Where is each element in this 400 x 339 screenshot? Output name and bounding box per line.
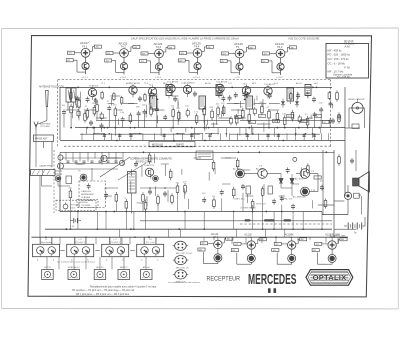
junction — [268, 127, 270, 129]
resistor — [328, 91, 330, 93]
wire — [125, 212, 127, 230]
wire — [235, 117, 246, 119]
wire — [142, 133, 144, 140]
wire — [154, 109, 163, 111]
capacitor — [320, 107, 322, 109]
wire — [191, 133, 193, 140]
svg-text:457: 457 — [141, 61, 144, 63]
wire — [263, 122, 265, 131]
junction — [45, 236, 47, 238]
wire — [252, 128, 254, 136]
junction — [172, 127, 174, 129]
wire — [246, 133, 248, 140]
wire — [303, 133, 305, 140]
transformer T.4 PO + GO — [137, 237, 164, 261]
junction — [65, 228, 67, 230]
svg-text:470: 470 — [235, 117, 238, 119]
junction — [86, 127, 88, 129]
wire — [184, 188, 186, 198]
junction — [231, 87, 233, 89]
wire — [229, 133, 231, 140]
wire — [81, 133, 83, 140]
resistor — [196, 113, 198, 116]
wire — [75, 163, 82, 165]
junction — [275, 236, 277, 238]
junction — [238, 151, 240, 153]
svg-text:CLAVIER: CLAVIER — [81, 196, 91, 199]
wire — [257, 123, 271, 125]
dashed note box (liaisons clavier) — [79, 181, 106, 208]
junction — [110, 251, 112, 253]
wire — [265, 229, 267, 237]
wire — [204, 128, 206, 132]
resistor — [101, 91, 103, 93]
capacitor electrolytic — [100, 114, 103, 118]
resistor — [125, 199, 127, 202]
capacitor — [90, 120, 92, 122]
wire — [251, 205, 253, 212]
junction — [252, 211, 254, 213]
capacitor — [235, 92, 237, 94]
svg-text:4 TOUCHES: 4 TOUCHES — [79, 205, 91, 207]
junction — [109, 250, 111, 252]
svg-text:DETR. GTL: DETR. GTL — [256, 204, 267, 206]
svg-text:4k7: 4k7 — [315, 116, 318, 118]
driver diodes — [279, 179, 283, 184]
resistor — [252, 199, 254, 202]
capacitor — [150, 91, 152, 93]
wire — [73, 257, 75, 270]
transistor group AC128 T.8 bottom — [231, 233, 266, 264]
svg-text:468: 468 — [169, 47, 172, 49]
wire — [221, 111, 223, 118]
junction — [312, 133, 314, 135]
junction — [302, 228, 304, 230]
transistor group AF107 T4.1 (top view + symbol) — [66, 41, 101, 74]
wire — [223, 105, 225, 113]
svg-text:a T6.2: a T6.2 — [277, 77, 284, 79]
junction — [86, 251, 88, 253]
junction — [148, 236, 150, 238]
antenna voiture symbol — [34, 122, 38, 128]
diagonal pointer line — [100, 157, 130, 177]
wire — [153, 133, 155, 140]
junction — [146, 274, 148, 276]
capacitor — [222, 96, 224, 98]
capacitor — [87, 97, 89, 99]
junction — [99, 274, 101, 276]
capacitor — [135, 161, 137, 163]
capacitor — [156, 107, 158, 109]
wire — [95, 237, 97, 244]
capacitor — [351, 158, 353, 160]
transformer T.1 Tous Ondes — [33, 237, 60, 261]
junction — [277, 127, 279, 129]
wire — [231, 237, 233, 244]
svg-text:VOITURE: VOITURE — [40, 126, 50, 128]
junction — [173, 140, 175, 142]
resistor — [70, 104, 72, 107]
svg-text:AF117: AF117 — [296, 82, 303, 85]
svg-text:Remplacements pour modèle a: Remplacements pour modèle avec clavier 4… — [90, 285, 157, 288]
junction — [77, 87, 79, 89]
wire — [58, 257, 60, 270]
resistor — [268, 109, 270, 112]
wire — [177, 101, 179, 108]
svg-text:1k: 1k — [124, 198, 126, 200]
wire — [161, 163, 169, 165]
svg-text:MEL./OSC. PO-GO: MEL./OSC. PO-GO — [176, 253, 193, 255]
svg-text:CADRE FER.: CADRE FER. — [39, 165, 53, 168]
svg-text:T4.1: T4.1 — [82, 44, 88, 48]
wire — [111, 97, 113, 106]
resistor — [96, 102, 98, 105]
svg-text:ANTENNE TELESCOP.: ANTENNE TELESCOP. — [39, 85, 64, 88]
coil boxes row 2 — [42, 267, 54, 280]
junction — [93, 133, 95, 135]
capacitor electrolytic — [229, 119, 232, 123]
wire — [163, 133, 165, 140]
junction — [121, 251, 123, 253]
wire — [117, 109, 122, 111]
driver transformer — [128, 172, 137, 194]
wire — [93, 133, 95, 140]
resistor — [150, 105, 152, 108]
svg-text:468: 468 — [134, 47, 137, 49]
junction — [284, 127, 286, 129]
wire — [222, 183, 230, 185]
resistor — [242, 108, 244, 111]
wire — [145, 212, 147, 230]
capacitor — [242, 184, 244, 186]
resistor — [338, 112, 340, 115]
resistor — [223, 105, 225, 108]
junction — [40, 250, 42, 252]
wire — [213, 122, 215, 127]
wire — [237, 109, 239, 114]
spec box A.M / F.M — [326, 44, 369, 79]
wire — [233, 212, 235, 230]
resistor — [157, 194, 159, 197]
svg-text:REPRL. GTL: REPRL. GTL — [281, 199, 294, 201]
wire — [295, 128, 297, 136]
transistor T.9 — [300, 169, 310, 179]
resistor — [276, 111, 278, 114]
svg-text:452: 452 — [275, 244, 278, 246]
wire — [77, 163, 86, 165]
svg-text:460: 460 — [341, 239, 344, 241]
svg-text:T4.4: T4.4 — [194, 45, 200, 49]
wire — [66, 109, 79, 111]
junction — [204, 140, 206, 142]
junction — [178, 247, 180, 249]
capacitor — [108, 106, 110, 108]
wire — [160, 128, 162, 136]
wire — [177, 120, 179, 125]
svg-text:MF 1 joint jaune — MF: MF 1 joint jaune — MF 2 joint vert — MF … — [76, 293, 130, 296]
capacitor — [139, 96, 141, 98]
wire — [128, 103, 137, 105]
svg-text:468: 468 — [95, 47, 98, 49]
wire — [234, 103, 245, 105]
resistor — [145, 200, 147, 203]
svg-text:50: 50 — [323, 122, 325, 124]
main horizontal bus wires — [59, 87, 61, 140]
svg-text:PO+GO 1: PO+GO 1 — [76, 242, 86, 244]
capacitor — [297, 93, 299, 95]
wire — [77, 212, 79, 230]
capacitor — [218, 91, 220, 93]
svg-text:T1.3: T1.3 — [149, 84, 154, 86]
wire — [281, 212, 283, 230]
capacitor — [194, 91, 196, 93]
wire — [267, 133, 269, 140]
resistor — [115, 192, 117, 195]
svg-text:PRISE CASQUE: PRISE CASQUE — [348, 98, 365, 101]
svg-text:PO + GO: PO + GO — [146, 242, 155, 244]
junction — [213, 236, 215, 238]
wire — [145, 257, 147, 270]
wire — [173, 133, 175, 140]
wire — [181, 133, 183, 140]
junction — [233, 211, 235, 213]
resistor — [291, 110, 293, 113]
wire — [292, 183, 299, 185]
resistor — [142, 192, 144, 195]
svg-text:457: 457 — [67, 60, 70, 62]
capacitor — [281, 196, 283, 198]
transistor group AC132 T.7 bottom — [198, 233, 233, 264]
wire — [109, 237, 111, 244]
junction — [203, 228, 205, 230]
wire — [193, 128, 195, 139]
wire — [121, 237, 123, 244]
capacitor electrolytic — [77, 111, 80, 115]
wire — [106, 157, 122, 159]
resistor — [170, 169, 172, 172]
junction — [145, 251, 147, 253]
capacitor — [269, 93, 271, 95]
wire — [253, 99, 255, 106]
junction — [203, 127, 205, 129]
svg-text:453: 453 — [181, 53, 184, 55]
svg-text:CONTRE REACT.: CONTRE REACT. — [240, 207, 257, 210]
wire — [110, 133, 112, 140]
wire — [74, 96, 76, 105]
resistor — [114, 106, 116, 109]
junction — [182, 275, 184, 277]
wire — [111, 257, 113, 270]
junction — [93, 127, 95, 129]
wire — [268, 109, 279, 111]
svg-text:452: 452 — [316, 244, 319, 246]
junction — [157, 99, 159, 101]
junction — [134, 236, 136, 238]
junction — [265, 211, 267, 213]
wire — [204, 121, 206, 125]
resistor — [213, 197, 215, 200]
svg-text:461: 461 — [199, 249, 202, 251]
junction — [149, 187, 151, 189]
resistor — [144, 93, 146, 95]
svg-text:453: 453 — [142, 53, 145, 55]
wire — [177, 98, 179, 107]
capacitor electrolytic — [298, 117, 301, 121]
junction — [123, 274, 125, 276]
svg-text:AC132: AC132 — [211, 233, 219, 236]
wire — [251, 125, 253, 134]
svg-text:468: 468 — [290, 47, 293, 49]
wire — [221, 157, 236, 159]
wire — [302, 187, 304, 195]
svg-text:452: 452 — [201, 243, 204, 245]
wire — [69, 212, 71, 230]
module vertical dashed — [53, 150, 55, 214]
capacitor — [105, 192, 107, 194]
transistor group AF126 T6.2 (top view + symbol) — [261, 42, 296, 75]
svg-text:RECEPTEUR: RECEPTEUR — [207, 275, 241, 282]
wire — [257, 133, 259, 140]
wire — [171, 95, 178, 97]
wire — [85, 257, 87, 270]
svg-text:PRISE ANT.: PRISE ANT. — [35, 138, 48, 141]
resistor — [129, 113, 131, 116]
capacitor — [164, 191, 166, 193]
capacitor — [246, 92, 248, 94]
svg-text:AC 188K/01K: AC 188K/01K — [293, 196, 306, 199]
junction — [326, 151, 328, 153]
junction — [70, 228, 72, 230]
wire — [208, 172, 210, 180]
wire — [337, 237, 339, 242]
junction — [155, 250, 157, 252]
wire — [309, 237, 311, 240]
wire — [95, 133, 105, 135]
capacitor — [313, 97, 315, 99]
wire — [262, 99, 264, 108]
wire — [85, 237, 87, 244]
svg-text:a T4.2: a T4.2 — [120, 77, 127, 79]
svg-text:T5: T5 — [236, 45, 240, 49]
svg-text:457: 457 — [221, 61, 224, 63]
wire — [178, 111, 180, 120]
capacitor electrolytic — [186, 111, 189, 115]
junction — [108, 87, 110, 89]
wire — [301, 167, 303, 177]
junction — [94, 127, 96, 129]
capacitor electrolytic — [253, 109, 256, 113]
junction — [211, 133, 213, 135]
wire — [93, 128, 95, 134]
resistor — [203, 106, 205, 109]
capacitor — [243, 92, 245, 94]
svg-text:HP: HP — [358, 196, 362, 198]
svg-text:a T4.1: a T4.1 — [82, 77, 89, 79]
capacitor — [164, 115, 166, 117]
wire — [203, 237, 205, 241]
module label — [149, 142, 195, 147]
wire — [321, 212, 323, 230]
svg-text:Les condensateurs vus côté: Les condensateurs vus côté soudures — [168, 281, 200, 284]
wire — [46, 257, 48, 270]
junction — [178, 228, 180, 230]
wire — [218, 117, 231, 119]
wire — [292, 212, 294, 230]
wire — [59, 237, 61, 244]
junction — [295, 133, 297, 135]
prise antenne box — [34, 135, 54, 142]
capacitor — [77, 96, 79, 98]
svg-text:453: 453 — [69, 53, 72, 55]
resistor — [178, 110, 180, 113]
wire — [194, 157, 202, 159]
junction — [85, 236, 87, 238]
svg-text:461: 461 — [273, 250, 276, 252]
small transistors AF section left — [58, 163, 64, 169]
junction — [321, 228, 323, 230]
wire — [39, 237, 41, 244]
junction — [103, 127, 105, 129]
svg-text:460: 460 — [260, 239, 263, 241]
capacitor — [101, 123, 103, 125]
wire — [203, 114, 205, 123]
resistor — [113, 92, 115, 94]
wire — [239, 128, 241, 136]
wire — [206, 120, 208, 125]
wire — [137, 202, 143, 204]
junction — [94, 99, 96, 101]
svg-text:100: 100 — [301, 121, 304, 123]
wire — [146, 105, 148, 114]
wire — [203, 212, 205, 230]
svg-text:460: 460 — [227, 239, 230, 241]
junction — [252, 133, 254, 135]
small contact blobs on rail — [245, 219, 251, 221]
svg-text:T1 AF106: T1 AF106 — [89, 84, 99, 87]
wire — [156, 94, 158, 101]
junction — [226, 133, 228, 135]
wire — [231, 109, 243, 111]
svg-text:468: 468 — [249, 47, 252, 49]
resistor — [248, 112, 250, 115]
wire — [165, 164, 167, 175]
wire — [246, 194, 248, 203]
wire — [256, 96, 258, 101]
junction — [164, 187, 166, 189]
resistor — [184, 183, 186, 186]
svg-text:2k2: 2k2 — [249, 122, 252, 124]
capacitor — [307, 92, 309, 94]
wire — [310, 115, 312, 120]
junction — [114, 127, 116, 129]
wire — [75, 103, 77, 108]
wire — [168, 229, 170, 237]
capacitor — [95, 98, 97, 100]
speaker HP — [353, 178, 360, 186]
junction — [262, 228, 264, 230]
capacitor — [138, 111, 140, 113]
svg-text:10k: 10k — [212, 196, 215, 198]
capacitor — [149, 189, 151, 191]
resistor — [307, 163, 309, 166]
wire — [123, 257, 125, 270]
svg-text:AF116: AF116 — [205, 82, 212, 85]
svg-text:LIAISONS: LIAISONS — [81, 190, 92, 193]
junction — [298, 127, 300, 129]
svg-text:T1.2 AF115: T1.2 AF115 — [129, 82, 141, 85]
small battery +-9V left — [70, 220, 73, 222]
junction — [182, 261, 184, 263]
